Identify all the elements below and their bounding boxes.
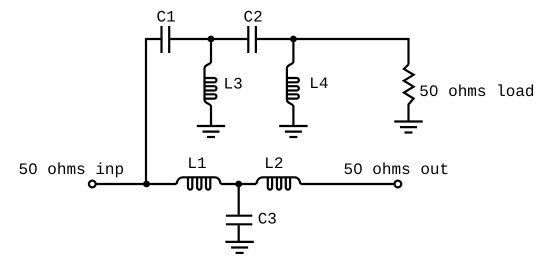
svg-text:50 ohms load: 50 ohms load xyxy=(419,83,534,101)
capacitor C1 xyxy=(162,26,170,53)
wire top rail C1 to C2 xyxy=(170,38,247,40)
svg-text:C2: C2 xyxy=(244,9,263,27)
svg-text:C3: C3 xyxy=(258,210,277,228)
wire bottom rail: input terminal to L1 xyxy=(96,183,177,185)
terminal input circle xyxy=(89,181,96,188)
ground (L4) xyxy=(279,126,307,137)
inductor L4 xyxy=(287,41,299,126)
wire bottom rail: L1 to L2 through C3 node xyxy=(221,183,257,185)
node A junction dot (C1/C2/L3) xyxy=(208,36,215,43)
wire C3 to ground xyxy=(238,225,240,241)
capacitor C2 xyxy=(248,26,256,53)
svg-text:L3: L3 xyxy=(224,76,243,94)
node D junction dot (L1/L2/C3) xyxy=(235,181,242,188)
resistor 50 ohms load xyxy=(404,65,414,121)
inductor L2 xyxy=(256,177,300,189)
ground (L3) xyxy=(197,126,225,137)
inductor L3 xyxy=(205,41,217,126)
terminal output circle xyxy=(395,181,402,188)
wire C3 stub xyxy=(238,185,240,215)
capacitor C3 xyxy=(226,216,252,225)
wire top rail C2 to load corner xyxy=(257,39,409,65)
ground (C3) xyxy=(225,242,253,253)
wire left vertical + top-left rail xyxy=(146,39,161,184)
node C junction dot (input rail / left vertical) xyxy=(143,181,150,188)
node B junction dot (C2/load/L4) xyxy=(290,36,297,43)
svg-text:L2: L2 xyxy=(264,155,283,173)
svg-text:L4: L4 xyxy=(309,75,328,93)
inductor L1 xyxy=(177,177,221,189)
ground (load) xyxy=(394,122,422,133)
wire bottom rail: L2 to output terminal xyxy=(301,183,395,185)
svg-text:C1: C1 xyxy=(157,9,176,27)
svg-text:L1: L1 xyxy=(187,155,206,173)
